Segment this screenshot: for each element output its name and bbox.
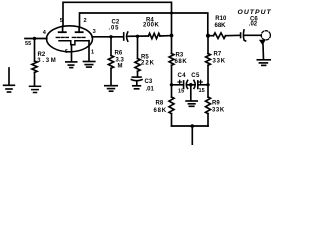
polarity + (C4) [178, 80, 181, 83]
ground (C4/C5 center) [186, 85, 197, 107]
svg-text:15: 15 [178, 89, 184, 95]
wire: C5 to right rail [198, 84, 208, 86]
resistor R2 [32, 39, 37, 86]
capacitor C3 [131, 77, 142, 85]
cathode lead pin 6 [71, 45, 73, 62]
svg-text:33K: 33K [213, 59, 226, 65]
node: R4/R3 junction [170, 34, 174, 38]
resistor R8 [169, 97, 174, 126]
svg-text:OUTPUT: OUTPUT [238, 9, 272, 16]
wire: C6 to jack [244, 34, 261, 36]
svg-text:33K: 33K [212, 108, 225, 114]
svg-text:C5: C5 [191, 73, 200, 79]
wire: node to C4 [172, 84, 184, 86]
grid (triode A), dashed [56, 36, 68, 38]
node: C4 left [170, 83, 173, 86]
resistor R4 [148, 33, 160, 38]
node: R5 tap [136, 35, 139, 38]
svg-text:C2: C2 [112, 19, 120, 25]
polarity + (C5) [199, 80, 202, 83]
cathode (shared bracket) [59, 41, 89, 45]
capacitor C4 (electrolytic) [184, 80, 188, 88]
svg-text:R10: R10 [215, 16, 227, 22]
wire: input line to grid pin 4 [25, 38, 47, 40]
svg-text:6: 6 [65, 49, 68, 55]
jack ground lead [262, 45, 265, 60]
capacitor C5 (electrolytic) [194, 80, 198, 88]
svg-text:15: 15 [199, 88, 205, 94]
wire: pin 5 plate up and across to R3/R4 node [63, 2, 172, 35]
ground (pin 6) [66, 62, 77, 68]
svg-text:.05: .05 [109, 26, 120, 32]
svg-text:R3: R3 [176, 52, 184, 58]
ground (stray, left edge) [4, 68, 15, 92]
svg-text:R8: R8 [156, 101, 164, 107]
resistor R9 [206, 97, 211, 126]
ground (jack) [257, 60, 270, 66]
capacitor C2 [124, 32, 128, 41]
svg-text:.01: .01 [146, 87, 155, 93]
wire: bottom rail [172, 125, 209, 127]
svg-text:200K: 200K [143, 23, 160, 29]
svg-text:22K: 22K [141, 61, 155, 67]
wire: C4 to center node [187, 84, 191, 86]
svg-text:C3: C3 [145, 79, 153, 85]
svg-text:R7: R7 [214, 52, 222, 58]
svg-text:2: 2 [84, 18, 87, 24]
wire: pin 2 plate up and across to R7/R10 node [80, 13, 208, 36]
wire: feed down off page [191, 126, 193, 145]
node: bottom center [191, 124, 195, 128]
node: C5 right [206, 83, 209, 86]
jack sleeve contact (triangle) [259, 40, 266, 45]
resistor R7 [206, 36, 211, 97]
node: R6 tap [109, 35, 112, 38]
cathode lead pin 1 [88, 41, 90, 61]
ground (R6) [105, 86, 117, 92]
node: input junction to R2 [33, 37, 36, 40]
node: R7/R10 junction [206, 34, 210, 38]
plate (triode A) [59, 31, 66, 33]
wire: C2 to R4 [127, 35, 148, 37]
svg-text:3.3M: 3.3M [37, 58, 57, 64]
resistor R3 [169, 36, 174, 98]
resistor R6 [108, 37, 113, 85]
svg-text:R6: R6 [115, 51, 123, 57]
wire: pin 3 grid to C2 [92, 36, 123, 38]
svg-text:R5: R5 [141, 54, 149, 60]
tube V1 envelope [47, 26, 93, 52]
ground (R2) [30, 86, 41, 92]
plate lead pin 2 [78, 28, 80, 33]
plate lead pin 5 [62, 26, 64, 32]
svg-text:.02: .02 [249, 22, 258, 28]
svg-text:3: 3 [93, 29, 96, 35]
output jack J1 (dashed circle) [261, 31, 270, 40]
svg-text:C4: C4 [178, 73, 187, 79]
ground (C3) [133, 86, 141, 89]
plate (triode B) [76, 31, 83, 33]
svg-text:1: 1 [91, 50, 94, 56]
wire: center node to C5 [191, 84, 194, 86]
junction: crossover thickening at x171.5 y13 [170, 12, 173, 15]
svg-text:68K: 68K [215, 23, 227, 29]
resistor R5 [135, 36, 140, 77]
svg-text:R9: R9 [212, 101, 220, 107]
resistor R10 [208, 33, 240, 39]
svg-text:68K: 68K [154, 108, 167, 114]
svg-text:68K: 68K [175, 59, 188, 65]
ground (pin 1) [84, 62, 95, 68]
svg-text:55: 55 [25, 41, 31, 47]
svg-text:M: M [118, 64, 123, 70]
capacitor C6 [241, 30, 246, 41]
grid (triode B), dashed [72, 36, 85, 38]
node: C4/C5 center [189, 83, 193, 87]
wire: R4 to node [160, 35, 172, 37]
